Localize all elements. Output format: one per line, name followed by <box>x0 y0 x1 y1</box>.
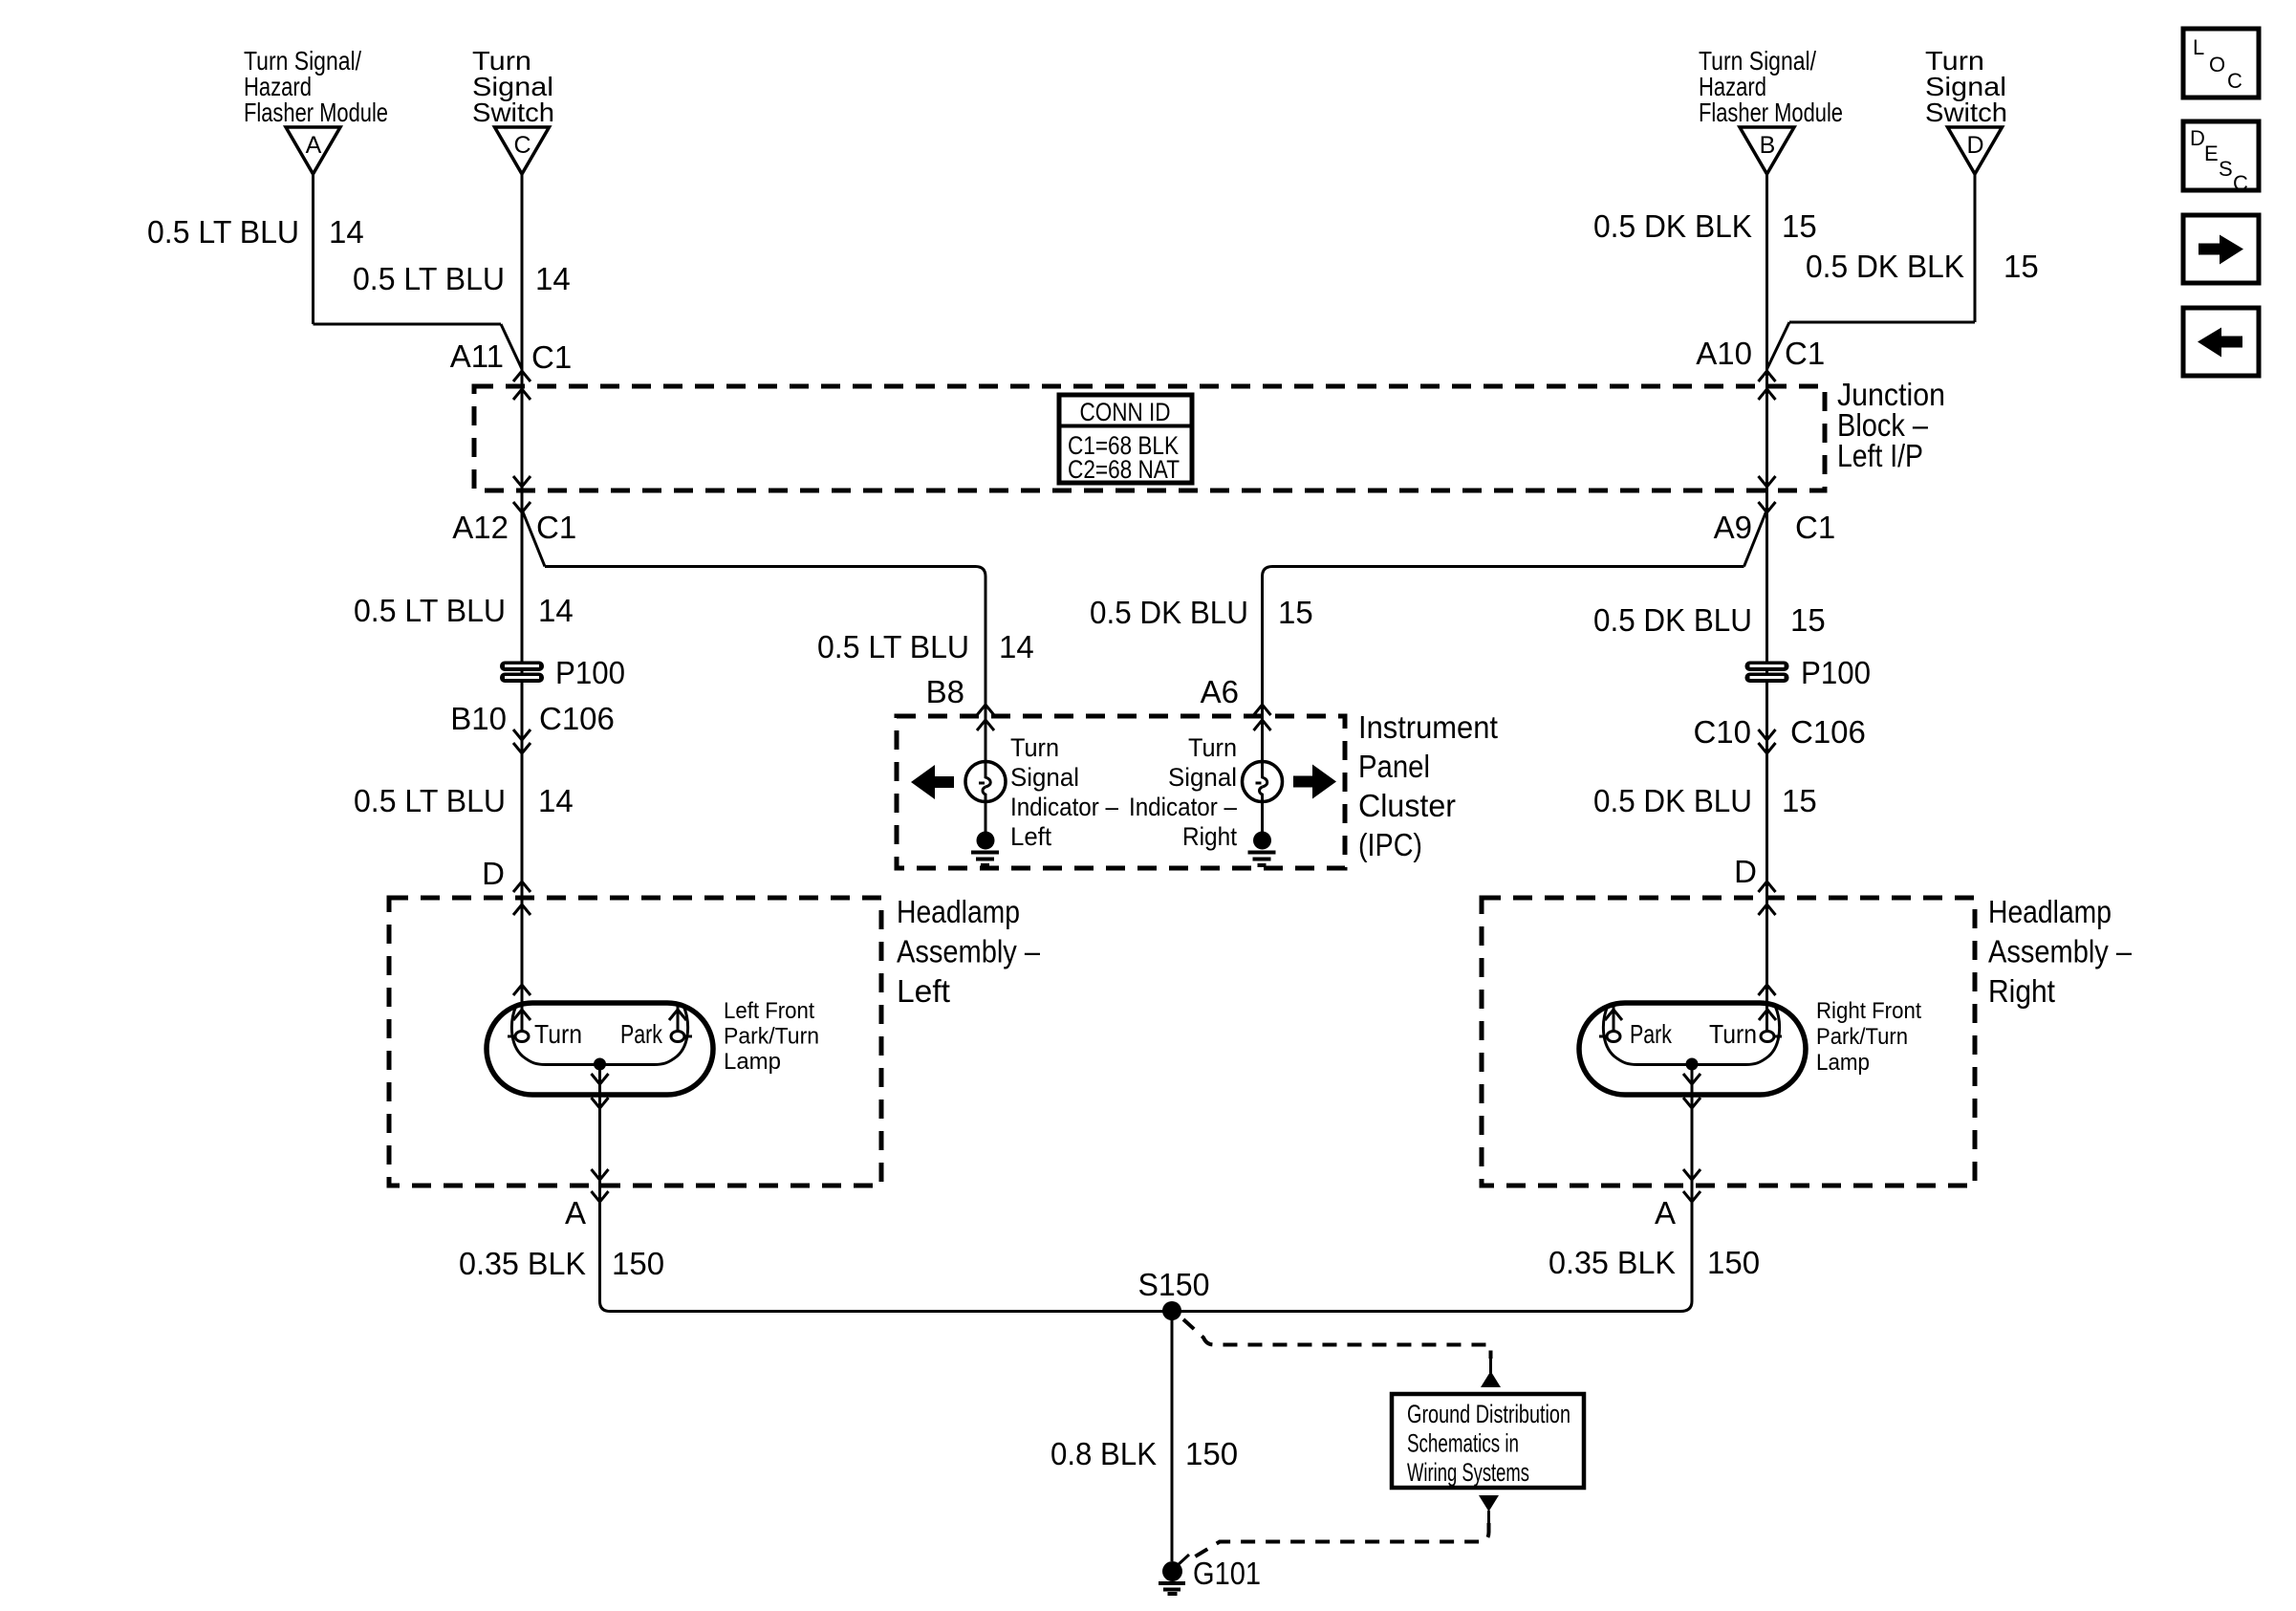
junction block interior arrow up (right) <box>1759 389 1776 400</box>
wire: lamp left to ground <box>985 802 987 833</box>
svg-text:(IPC): (IPC) <box>1358 827 1422 862</box>
lamp: turn signal indicator right (bulb) <box>1243 762 1283 802</box>
wire: ground bus horizontal <box>610 1310 1680 1313</box>
svg-text:Turn: Turn <box>1010 733 1059 762</box>
svg-text:A: A <box>565 1195 586 1230</box>
ground: IPC right indicator <box>1248 832 1276 866</box>
wire: left lamp exit down <box>598 1064 601 1202</box>
label: Junction Block - Left I/P <box>1837 377 1945 473</box>
svg-text:B8: B8 <box>926 674 964 709</box>
instrument panel cluster IPC (dashed box) <box>897 716 1345 868</box>
svg-text:C10: C10 <box>1693 714 1751 750</box>
svg-text:0.5 LT BLU: 0.5 LT BLU <box>817 629 969 664</box>
svg-text:B: B <box>1760 132 1776 159</box>
svg-text:0.35 BLK: 0.35 BLK <box>1549 1245 1676 1280</box>
legend box right arrow <box>2183 215 2259 283</box>
wire: flasher A horizontal to C1 <box>314 323 502 326</box>
label: Turn Signal/Hazard Flasher Module (left) <box>244 46 388 127</box>
wire: switch D down <box>1974 174 1977 322</box>
node: lamp common splice (right) <box>1686 1058 1699 1071</box>
svg-text:14: 14 <box>538 783 574 818</box>
svg-text:Indicator –: Indicator – <box>1129 793 1237 821</box>
arrow icon: left turn (black) <box>911 765 954 799</box>
chevron below stadium (right exit) <box>1683 1098 1700 1108</box>
svg-text:C1: C1 <box>531 339 572 375</box>
svg-text:A: A <box>306 132 322 159</box>
label: Instrument Panel Cluster (IPC) <box>1358 709 1498 862</box>
label: Turn Signal Switch (left) <box>472 46 554 127</box>
svg-text:0.8 BLK: 0.8 BLK <box>1051 1436 1157 1471</box>
svg-text:Panel: Panel <box>1358 749 1430 784</box>
svg-text:Left Front: Left Front <box>724 998 814 1024</box>
pin labels A10 / C1 <box>1696 336 1825 371</box>
svg-text:Left: Left <box>897 973 950 1009</box>
label: Right Front Park/Turn Lamp <box>1816 998 1921 1076</box>
arrow into headlamp box (right) <box>1759 904 1776 915</box>
svg-text:15: 15 <box>1782 208 1817 244</box>
pin labels A11 / C1 <box>450 338 572 375</box>
chevron above stadium (left) <box>513 985 531 995</box>
stadium right: inner loop <box>1603 1006 1779 1065</box>
svg-text:14: 14 <box>999 629 1034 664</box>
svg-text:C1: C1 <box>1795 510 1835 545</box>
lamp: right front park/turn lamp (stadium outline) <box>1579 1003 1806 1095</box>
label: Headlamp Assembly - Left <box>897 894 1041 1009</box>
node: pin A chevron below box (right) <box>1683 1191 1700 1202</box>
label: 0.5 LT BLU 14 (wire A) <box>147 214 364 250</box>
connector P100 (left grommet) <box>500 655 625 690</box>
connector C106 chevrons (right) <box>1759 729 1776 740</box>
junction block interior arrow down (right) <box>1759 476 1776 487</box>
svg-text:G101: G101 <box>1193 1556 1261 1591</box>
svg-text:Right Front: Right Front <box>1816 998 1921 1024</box>
ground distribution schematics box <box>1392 1394 1584 1488</box>
svg-text:Assembly –: Assembly – <box>897 934 1041 969</box>
lamp: turn signal indicator left (bulb) <box>965 762 1006 802</box>
svg-text:Signal: Signal <box>1168 763 1237 792</box>
stadium right: park contact <box>1607 1032 1620 1042</box>
svg-text:Headlamp: Headlamp <box>1988 894 2112 929</box>
svg-text:0.35 BLK: 0.35 BLK <box>459 1246 586 1281</box>
wire: switch D diagonal into A10 junction <box>1767 322 1790 369</box>
chevron below stadium (left exit) <box>592 1098 609 1108</box>
label: 0.5 LT BLU 14 (wire C) <box>353 261 571 296</box>
svg-text:Right: Right <box>1182 822 1237 851</box>
svg-text:0.5 DK BLU: 0.5 DK BLU <box>1593 602 1752 638</box>
arrow icon: right turn (black) <box>1293 765 1336 799</box>
IPC: arrow inside top (B8) <box>977 720 994 730</box>
svg-text:C106: C106 <box>1790 714 1866 750</box>
junction block - left I/P (dashed box) <box>474 386 1825 490</box>
chevron above stadium (right) <box>1759 985 1776 995</box>
arrow down inside headlamp box bottom (right) <box>1683 1169 1700 1180</box>
svg-text:Turn: Turn <box>1188 733 1237 762</box>
connector triangle A (turn signal/hazard flasher module) <box>286 127 340 174</box>
connector triangle B (turn signal/hazard flasher module) <box>1740 127 1794 174</box>
svg-text:Schematics in: Schematics in <box>1407 1429 1519 1458</box>
svg-text:0.5 DK BLK: 0.5 DK BLK <box>1593 208 1752 244</box>
svg-text:C: C <box>513 132 531 159</box>
svg-text:A10: A10 <box>1696 336 1752 371</box>
wire: left main down from A12 to headlamp stadium <box>521 490 524 1031</box>
node: A11/C1 junction chevron <box>513 371 531 381</box>
IPC: chevron above A6 entry <box>1254 705 1271 715</box>
IPC: arrow inside top (A6) <box>1254 720 1271 730</box>
svg-text:Flasher Module: Flasher Module <box>244 98 388 127</box>
stadium right: park stub <box>1613 1003 1615 1031</box>
label: 0.35 BLK 150 (right) <box>1549 1245 1760 1280</box>
wire: switch D horizontal <box>1789 321 1975 324</box>
svg-text:C1: C1 <box>536 510 576 545</box>
svg-text:C: C <box>2227 69 2242 93</box>
node: D junction chevron above headlamp box (right) <box>1759 882 1776 892</box>
svg-text:150: 150 <box>1707 1245 1760 1280</box>
label: 0.5 DK BLK 15 (wire B) <box>1593 208 1817 244</box>
wire: junction block interior right <box>1765 386 1768 490</box>
svg-text:Right: Right <box>1988 973 2055 1009</box>
svg-text:Signal: Signal <box>1010 763 1079 792</box>
svg-text:0.5 LT BLU: 0.5 LT BLU <box>354 593 506 628</box>
svg-text:Ground Distribution: Ground Distribution <box>1407 1400 1570 1428</box>
svg-text:D: D <box>1734 854 1757 889</box>
node: lamp common splice (left) <box>594 1058 606 1071</box>
svg-text:O: O <box>2209 53 2225 76</box>
ground G101 <box>1159 1555 1261 1594</box>
legend box left arrow <box>2183 308 2259 376</box>
label: Left Front Park/Turn Lamp <box>724 998 819 1075</box>
pin labels C10 / C106 (right) <box>1693 714 1865 750</box>
svg-text:Turn: Turn <box>1709 1019 1757 1049</box>
stadium left: park stub <box>677 1003 680 1031</box>
svg-text:C106: C106 <box>539 701 615 736</box>
svg-text:Turn: Turn <box>534 1019 582 1049</box>
node: A10/C1 junction chevron <box>1759 371 1776 381</box>
junction block interior arrow up (left) <box>513 389 531 400</box>
stadium left: inner loop <box>511 1006 687 1065</box>
arrow down inside stadium (left exit) <box>592 1074 609 1084</box>
label: 0.5 DK BLK 15 (wire D) <box>1806 249 2039 284</box>
connector P100 (right grommet) <box>1745 655 1872 690</box>
label: 0.5 LT BLU 14 (left main) <box>354 593 574 628</box>
wire: ground bus left leg <box>600 1202 611 1312</box>
headlamp assembly - left (dashed box) <box>389 898 881 1186</box>
svg-text:A12: A12 <box>452 510 509 545</box>
pin labels A12 / C1 <box>452 510 576 545</box>
svg-text:15: 15 <box>2004 249 2039 284</box>
svg-text:S150: S150 <box>1138 1267 1210 1302</box>
svg-text:A: A <box>1655 1195 1676 1230</box>
svg-text:Park: Park <box>620 1019 663 1049</box>
svg-text:0.5 LT BLU: 0.5 LT BLU <box>147 214 299 250</box>
stadium left: turn contact <box>515 1032 529 1042</box>
label: 0.35 BLK 150 (left) <box>459 1246 664 1281</box>
svg-text:15: 15 <box>1782 783 1817 818</box>
svg-text:Wiring Systems: Wiring Systems <box>1407 1458 1529 1487</box>
svg-text:Lamp: Lamp <box>1816 1050 1870 1076</box>
junction block interior arrow down (left) <box>513 476 531 487</box>
pin labels A9 / C1 <box>1714 510 1836 545</box>
svg-text:A9: A9 <box>1714 510 1752 545</box>
label: 0.5 LT BLU 14 (to headlamp left) <box>354 783 574 818</box>
stadium right: turn contact <box>1761 1032 1774 1042</box>
svg-text:C: C <box>2233 171 2248 195</box>
svg-text:CONN ID: CONN ID <box>1080 398 1171 426</box>
svg-text:C1: C1 <box>1785 336 1825 371</box>
svg-text:D: D <box>482 856 505 891</box>
wire: B8 stem to lamp <box>985 716 987 762</box>
svg-text:Cluster: Cluster <box>1358 788 1456 823</box>
svg-text:A11: A11 <box>450 338 504 374</box>
svg-text:0.5 LT BLU: 0.5 LT BLU <box>353 261 505 296</box>
svg-text:0.5 LT BLU: 0.5 LT BLU <box>354 783 506 818</box>
svg-text:C2=68 NAT: C2=68 NAT <box>1068 455 1180 484</box>
wire: junction block interior left <box>521 386 524 490</box>
label: 0.5 DK BLU 15 (right main) <box>1593 602 1826 638</box>
svg-text:L: L <box>2193 35 2204 59</box>
dashed reference: S150 to ground distribution box <box>1183 1319 1491 1359</box>
pin labels B10 / C106 (left) <box>450 701 615 736</box>
splice S150 <box>1138 1267 1210 1320</box>
reference arrow up (top of GD box) <box>1481 1359 1501 1387</box>
label: 0.8 BLK 150 <box>1051 1436 1238 1471</box>
svg-text:14: 14 <box>538 593 574 628</box>
stadium left: turn stub arrow <box>513 1010 531 1020</box>
stadium left: park contact <box>671 1032 684 1042</box>
labels Park / Turn (right stadium) <box>1630 1019 1757 1049</box>
svg-text:15: 15 <box>1278 595 1313 630</box>
svg-text:15: 15 <box>1790 602 1826 638</box>
wire: S150 down to G101 <box>1171 1311 1174 1561</box>
svg-text:Assembly –: Assembly – <box>1988 934 2133 969</box>
lamp: left front park/turn lamp (stadium outline) <box>487 1003 713 1095</box>
node: A12/C1 junction chevron <box>513 502 531 512</box>
svg-text:Indicator –: Indicator – <box>1010 793 1118 821</box>
IPC: chevron above B8 entry <box>977 705 994 715</box>
reference arrow down (bottom of GD box) <box>1479 1495 1499 1523</box>
svg-text:Left I/P: Left I/P <box>1837 438 1923 473</box>
wire: flasher B down to junction block <box>1765 174 1768 386</box>
svg-text:Switch: Switch <box>1925 98 2007 127</box>
label: Turn Signal Indicator - Right <box>1129 733 1237 851</box>
wire: branch diagonal from A9 <box>1744 510 1767 567</box>
svg-text:A6: A6 <box>1201 674 1239 709</box>
svg-text:D: D <box>1966 132 1983 159</box>
svg-text:0.5 DK BLK: 0.5 DK BLK <box>1806 249 1964 284</box>
label: Turn Signal Indicator - Left <box>1010 733 1118 851</box>
svg-text:S: S <box>2219 157 2233 181</box>
svg-text:Flasher Module: Flasher Module <box>1699 98 1843 127</box>
svg-text:Left: Left <box>1010 822 1051 851</box>
wire: branch to IPC B8 <box>545 567 986 717</box>
label: Turn Signal/Hazard Flasher Module (right) <box>1699 46 1843 127</box>
svg-text:E: E <box>2204 142 2219 165</box>
connector triangle D (turn signal switch) <box>1948 127 2003 174</box>
legend box DESC <box>2183 121 2259 195</box>
arrow down inside headlamp box bottom (left) <box>592 1169 609 1180</box>
arrow into headlamp box (left) <box>513 904 531 915</box>
wire: lamp right to ground <box>1261 802 1264 833</box>
svg-text:0.5 DK BLU: 0.5 DK BLU <box>1593 783 1752 818</box>
node: A9/C1 junction chevron <box>1759 502 1776 512</box>
svg-text:Park/Turn: Park/Turn <box>1816 1024 1908 1050</box>
wire: switch C down to junction block <box>521 174 524 386</box>
label: Headlamp Assembly - Right <box>1988 894 2133 1009</box>
wire: flasher A diagonal into A11 junction <box>501 324 522 369</box>
wire: flasher A down <box>312 174 314 324</box>
svg-text:14: 14 <box>535 261 571 296</box>
wire: right main down from A9 to headlamp stadium <box>1765 490 1768 1031</box>
svg-text:B10: B10 <box>450 701 507 736</box>
wire: A6 stem to lamp <box>1261 716 1264 762</box>
wire: right lamp exit down <box>1691 1064 1694 1202</box>
svg-text:Park/Turn: Park/Turn <box>724 1024 819 1050</box>
svg-text:Lamp: Lamp <box>724 1049 781 1075</box>
svg-text:D: D <box>2190 126 2205 150</box>
arrow down inside stadium (right exit) <box>1683 1074 1700 1084</box>
connector C106 chevrons (left) <box>513 729 531 740</box>
svg-text:Headlamp: Headlamp <box>897 894 1020 929</box>
svg-text:P100: P100 <box>555 655 625 690</box>
node: pin A chevron below box (left) <box>592 1191 609 1202</box>
labels Turn / Park (left stadium) <box>534 1019 663 1049</box>
CONN ID table <box>1059 395 1192 484</box>
svg-text:150: 150 <box>1185 1436 1238 1471</box>
label: 0.5 LT BLU 14 (B8 branch) <box>817 629 1034 664</box>
svg-text:Instrument: Instrument <box>1358 709 1498 745</box>
ground: IPC left indicator <box>971 832 999 866</box>
svg-text:14: 14 <box>329 214 364 250</box>
legend box LOC <box>2183 29 2259 98</box>
label: 0.5 DK BLU 15 (A6 branch) <box>1090 595 1313 630</box>
dashed reference: GD box to G101 <box>1187 1523 1489 1561</box>
wire: ground bus right leg <box>1680 1202 1692 1312</box>
svg-text:0.5 DK BLU: 0.5 DK BLU <box>1090 595 1248 630</box>
svg-text:Park: Park <box>1630 1019 1673 1049</box>
stadium right: turn stub arrow <box>1759 1010 1776 1020</box>
connector triangle C (turn signal switch) <box>495 127 550 174</box>
svg-text:Switch: Switch <box>472 98 554 127</box>
label: Turn Signal Switch (right) <box>1925 46 2007 127</box>
svg-text:P100: P100 <box>1801 655 1871 690</box>
wire: branch to IPC A6 <box>1263 567 1744 717</box>
node: D junction chevron above headlamp box <box>513 882 531 892</box>
label: 0.5 DK BLU 15 (to headlamp right) <box>1593 783 1817 818</box>
wire: branch diagonal from A12 <box>522 510 545 567</box>
headlamp assembly - right (dashed box) <box>1482 898 1975 1186</box>
svg-text:150: 150 <box>612 1246 664 1281</box>
